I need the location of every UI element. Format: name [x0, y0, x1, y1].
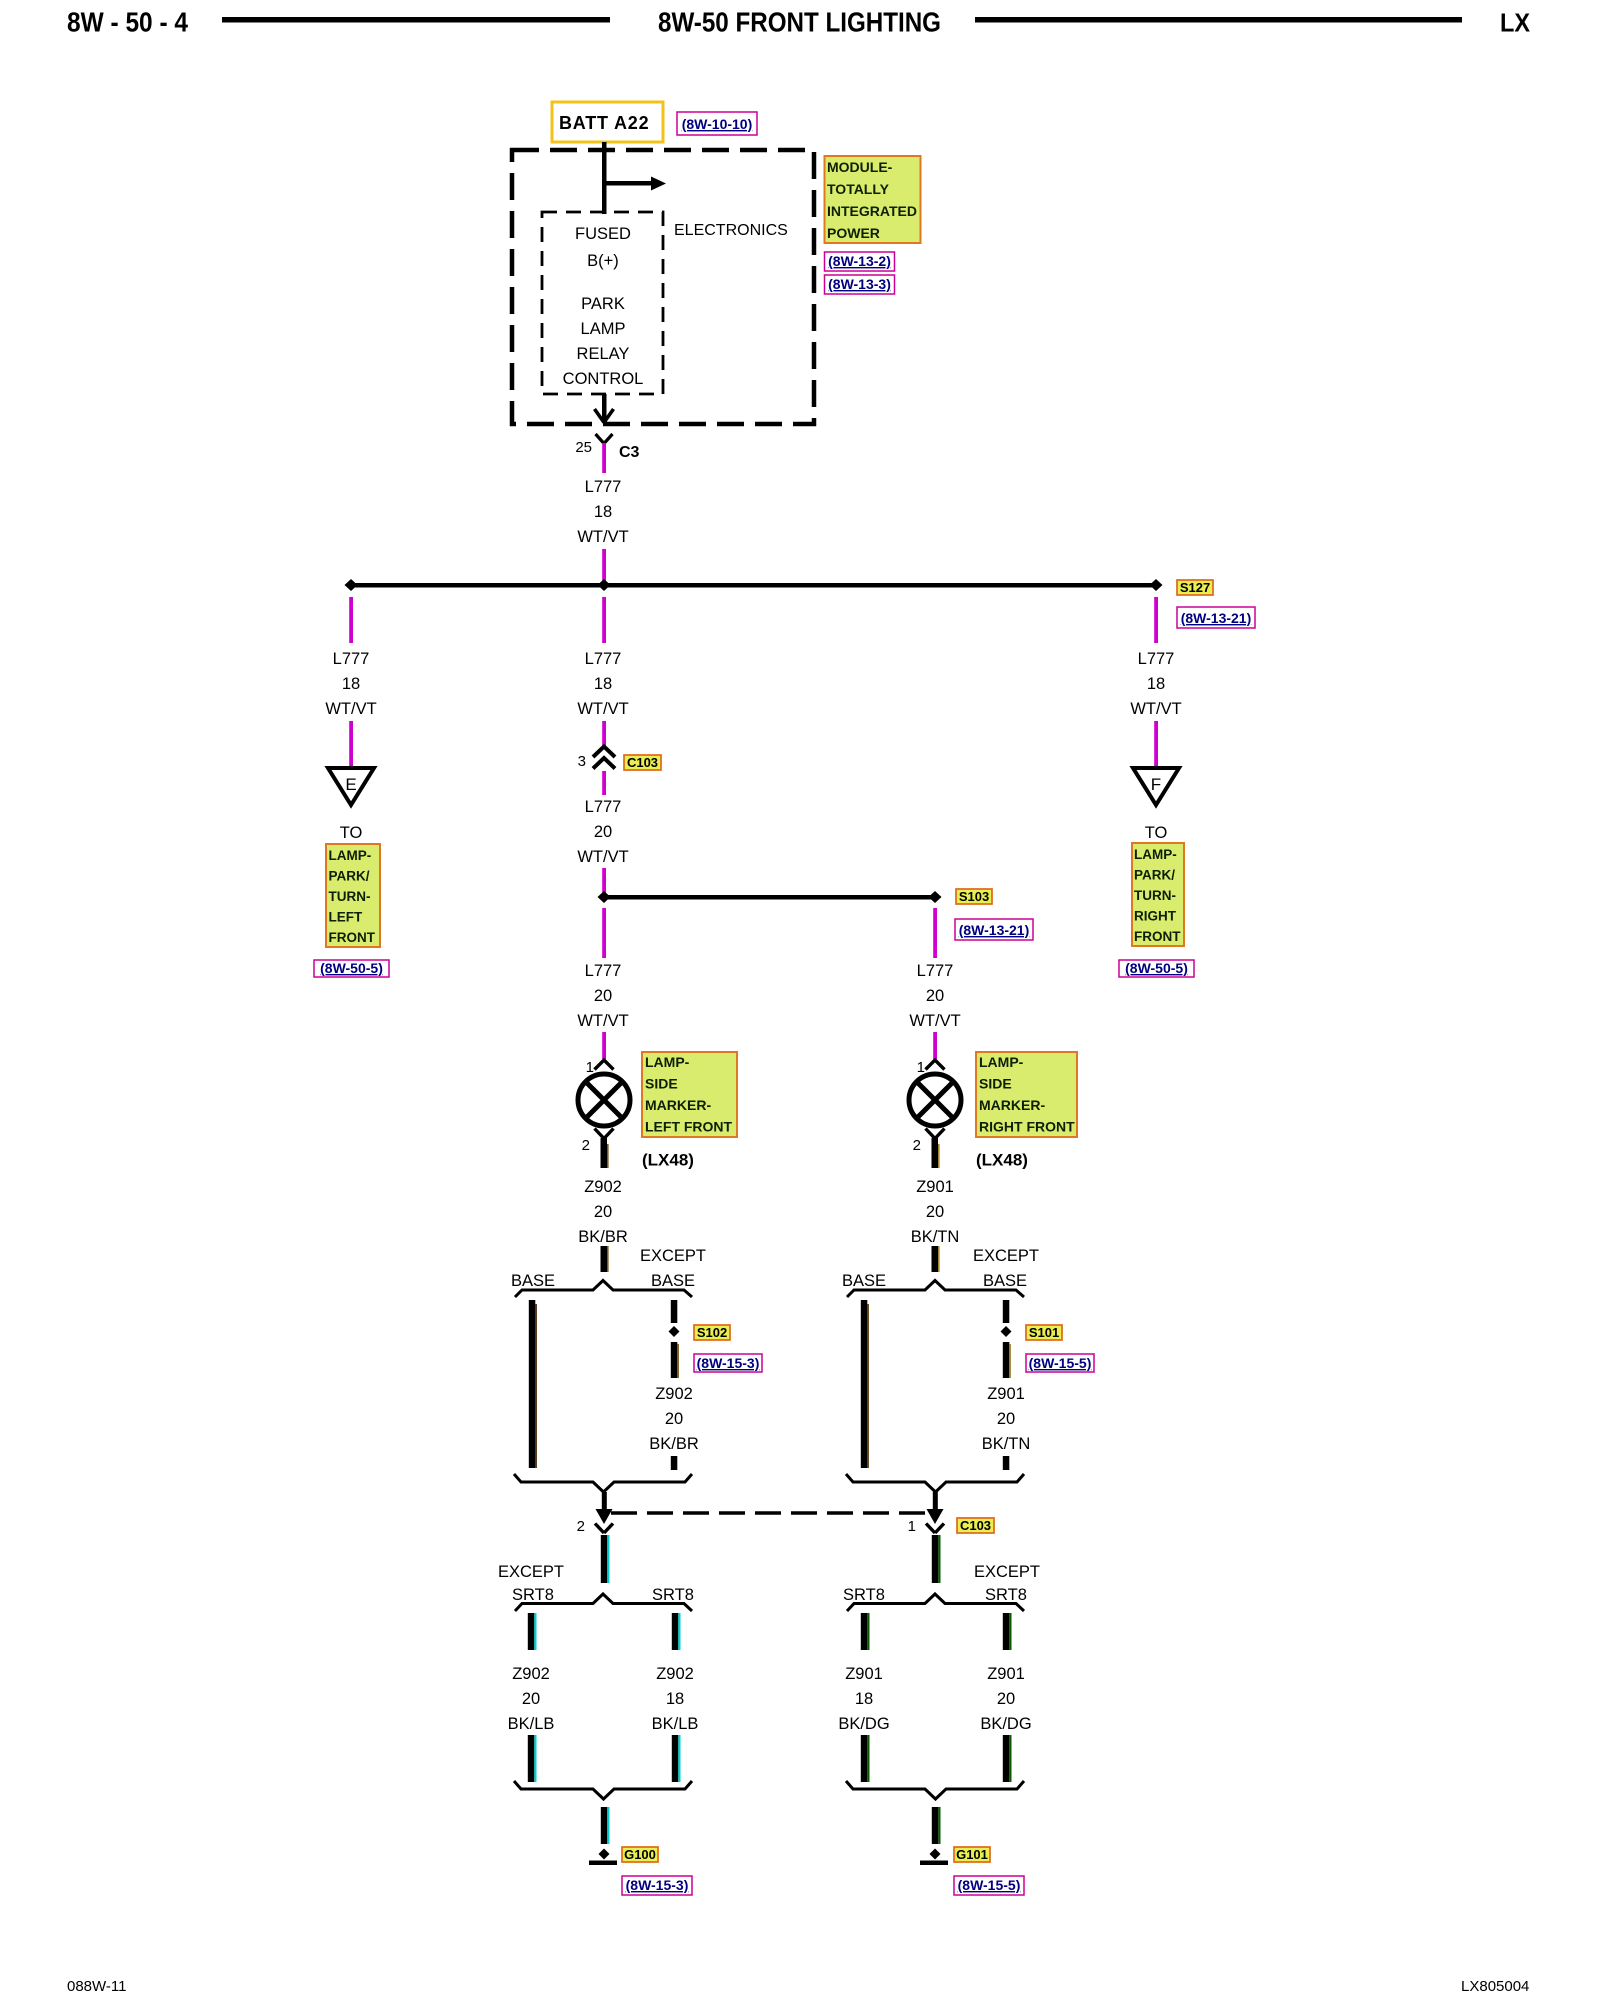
svg-text:WT/VT: WT/VT	[909, 1012, 960, 1030]
link 8W-50-5 right	[1119, 960, 1194, 977]
svg-text:EXCEPT: EXCEPT	[974, 1563, 1040, 1581]
link 8W-10-10	[677, 112, 757, 135]
svg-text:BK/TN: BK/TN	[911, 1228, 960, 1246]
wire split brace right srt8	[847, 1594, 1024, 1611]
wire Z902 20 BK/LB lower	[528, 1735, 537, 1782]
wire Z901 stub	[932, 1246, 940, 1272]
svg-text:BASE: BASE	[651, 1272, 695, 1290]
svg-text:BK/BR: BK/BR	[649, 1435, 699, 1453]
svg-text:LAMP-: LAMP-	[329, 848, 372, 863]
wire C103 dashed connector line	[611, 1511, 928, 1514]
svg-text:(8W-13-2): (8W-13-2)	[828, 253, 891, 269]
svg-text:LAMP-: LAMP-	[979, 1054, 1024, 1070]
svg-text:18: 18	[1147, 675, 1165, 693]
svg-text:088W-11: 088W-11	[67, 1978, 126, 1995]
wire merge brace right lamp	[846, 1474, 1024, 1492]
wire center below bus	[602, 597, 606, 643]
svg-text:20: 20	[997, 1410, 1015, 1428]
svg-text:BK/BR: BK/BR	[578, 1228, 628, 1246]
lamp right pin 2	[913, 1129, 945, 1169]
lamp left LAMP-SIDE MARKER-LEFT FRONT symbol	[578, 1074, 630, 1126]
svg-text:RIGHT: RIGHT	[1134, 909, 1177, 924]
svg-text:PARK/: PARK/	[1134, 868, 1175, 883]
wire	[933, 1032, 937, 1059]
svg-text:LX: LX	[1500, 8, 1531, 38]
wire Z902 18 BK/LB lower	[672, 1735, 681, 1782]
splice S102 node	[669, 1326, 680, 1337]
wire	[349, 721, 353, 766]
svg-text:BASE: BASE	[842, 1272, 886, 1290]
svg-text:BK/DG: BK/DG	[838, 1715, 889, 1733]
svg-text:EXCEPT: EXCEPT	[498, 1563, 564, 1581]
svg-text:L777: L777	[585, 650, 622, 668]
svg-text:1: 1	[586, 1059, 594, 1076]
svg-text:L777: L777	[585, 478, 622, 496]
svg-text:L777: L777	[585, 798, 622, 816]
svg-text:B(+): B(+)	[587, 252, 619, 270]
svg-text:BK/LB: BK/LB	[652, 1715, 699, 1733]
wire Z901 20 BK/DG upper	[1003, 1613, 1012, 1650]
wire below S101	[1003, 1342, 1011, 1378]
svg-text:TO: TO	[1145, 824, 1168, 842]
wire L777 18 WT/VT from C3	[602, 443, 606, 473]
svg-text:BASE: BASE	[983, 1272, 1027, 1290]
wire below S102	[671, 1342, 679, 1378]
splice S102 label	[694, 1325, 730, 1340]
svg-text:20: 20	[594, 823, 612, 841]
svg-text:SRT8: SRT8	[843, 1586, 885, 1604]
svg-text:LEFT FRONT: LEFT FRONT	[645, 1119, 733, 1135]
ground G101 label	[954, 1847, 990, 1862]
node junction diamonds	[345, 579, 358, 591]
wire batt feed vertical	[602, 142, 607, 214]
wire below C103 pin1 BK/DG	[932, 1535, 941, 1583]
wire Z902 20 BK/LB upper	[528, 1613, 537, 1650]
wire split brace left lamp	[515, 1281, 692, 1298]
svg-text:MODULE-: MODULE-	[827, 159, 893, 175]
node LAMP-SIDE MARKER-RIGHT FRONT callout	[976, 1052, 1077, 1137]
link 8W-15-3 at G100	[622, 1876, 692, 1895]
svg-text:C103: C103	[960, 1518, 991, 1533]
svg-text:LAMP: LAMP	[581, 320, 626, 338]
svg-text:8W-50 FRONT LIGHTING: 8W-50 FRONT LIGHTING	[658, 7, 941, 38]
link 8W-13-21	[1177, 607, 1255, 628]
connector C103 pin 2 arrow	[577, 1492, 613, 1535]
svg-text:SRT8: SRT8	[652, 1586, 694, 1604]
svg-text:FUSED: FUSED	[575, 225, 631, 243]
svg-text:18: 18	[855, 1690, 873, 1708]
svg-text:WT/VT: WT/VT	[1130, 700, 1181, 718]
svg-text:18: 18	[666, 1690, 684, 1708]
fuse BATT A22 box	[552, 102, 663, 142]
svg-text:18: 18	[594, 675, 612, 693]
svg-text:1: 1	[917, 1059, 925, 1076]
svg-text:EXCEPT: EXCEPT	[973, 1247, 1039, 1265]
svg-text:BK/LB: BK/LB	[508, 1715, 555, 1733]
svg-text:MARKER-: MARKER-	[645, 1097, 711, 1113]
svg-text:8W - 50 - 4: 8W - 50 - 4	[67, 7, 188, 38]
lamp left pin 1	[586, 1059, 614, 1076]
svg-text:Z902: Z902	[584, 1178, 622, 1196]
svg-text:FRONT: FRONT	[1134, 929, 1181, 944]
svg-text:TO: TO	[340, 824, 363, 842]
svg-text:LX805004: LX805004	[1461, 1978, 1529, 1995]
svg-text:Z901: Z901	[987, 1385, 1025, 1403]
link 8W-15-3 at S102	[694, 1354, 762, 1372]
svg-text:Z902: Z902	[656, 1665, 694, 1683]
svg-text:Z901: Z901	[987, 1665, 1025, 1683]
svg-text:BATT A22: BATT A22	[559, 113, 649, 133]
svg-text:F: F	[1151, 775, 1161, 794]
svg-text:CONTROL: CONTROL	[563, 370, 644, 388]
connector C103 label	[624, 755, 661, 770]
svg-text:PARK: PARK	[581, 295, 625, 313]
wire split brace left srt8	[515, 1594, 692, 1611]
wire	[602, 721, 606, 746]
svg-text:TOTALLY: TOTALLY	[827, 181, 890, 197]
svg-text:PARK/: PARK/	[329, 869, 370, 884]
lamp right LAMP-SIDE MARKER-RIGHT FRONT symbol	[909, 1074, 961, 1126]
svg-text:2: 2	[577, 1518, 585, 1535]
svg-text:FRONT: FRONT	[329, 930, 376, 945]
svg-text:20: 20	[665, 1410, 683, 1428]
header rule left	[222, 17, 610, 23]
header rule right	[975, 17, 1462, 23]
svg-text:20: 20	[594, 1203, 612, 1221]
wire Z902 18 BK/LB upper	[672, 1613, 681, 1650]
link 8W-15-5 at S101	[1026, 1354, 1094, 1372]
wire L777 20 WT/VT	[602, 771, 606, 795]
svg-text:20: 20	[926, 987, 944, 1005]
svg-text:RIGHT FRONT: RIGHT FRONT	[979, 1119, 1075, 1135]
wire Z901 18 BK/DG upper	[861, 1613, 870, 1650]
ground G101 symbol	[920, 1849, 948, 1866]
link 8W-50-5 left	[314, 960, 389, 977]
wire splice bus horizontal	[351, 583, 1156, 588]
svg-text:SRT8: SRT8	[512, 1586, 554, 1604]
svg-text:LAMP-: LAMP-	[1134, 847, 1177, 862]
svg-text:S102: S102	[697, 1325, 727, 1340]
svg-text:SIDE: SIDE	[979, 1076, 1012, 1092]
wire BASE run left	[529, 1300, 537, 1468]
wire right branch L777	[1154, 597, 1158, 643]
svg-text:C3: C3	[619, 444, 640, 461]
svg-text:(8W-15-3): (8W-15-3)	[697, 1355, 760, 1371]
ground G100 symbol	[589, 1849, 617, 1866]
connector C103 pin 1 arrow	[908, 1492, 944, 1535]
wire merge brace right srt8	[846, 1781, 1024, 1799]
svg-text:2: 2	[913, 1137, 921, 1154]
svg-text:L777: L777	[333, 650, 370, 668]
svg-text:2: 2	[582, 1137, 590, 1154]
off-page connector E	[328, 768, 374, 805]
svg-text:(LX48): (LX48)	[642, 1151, 694, 1170]
svg-text:TURN-: TURN-	[329, 889, 371, 904]
svg-text:WT/VT: WT/VT	[577, 528, 628, 546]
wire merge brace left srt8	[514, 1781, 692, 1799]
wire internal arrow branch	[604, 177, 666, 191]
svg-text:L777: L777	[585, 962, 622, 980]
wire left lamp feed	[602, 908, 606, 958]
splice S101 node	[1001, 1326, 1012, 1337]
svg-text:1: 1	[908, 1518, 916, 1535]
link 8W-13-2	[825, 252, 895, 271]
wire to G100	[601, 1807, 610, 1844]
node TO LAMP-PARK/TURN-RIGHT FRONT callout	[1132, 843, 1184, 946]
svg-text:20: 20	[594, 987, 612, 1005]
svg-text:INTEGRATED: INTEGRATED	[827, 203, 917, 219]
svg-text:SIDE: SIDE	[645, 1076, 678, 1092]
link 8W-15-5 at G101	[954, 1876, 1024, 1895]
svg-text:LEFT: LEFT	[329, 910, 363, 925]
svg-text:LAMP-: LAMP-	[645, 1054, 690, 1070]
svg-text:L777: L777	[917, 962, 954, 980]
svg-text:C103: C103	[627, 755, 658, 770]
svg-text:WT/VT: WT/VT	[325, 700, 376, 718]
wire	[602, 549, 606, 585]
node TO LAMP-PARK/TURN-LEFT FRONT callout	[326, 844, 380, 947]
svg-text:18: 18	[594, 503, 612, 521]
svg-text:L777: L777	[1138, 650, 1175, 668]
ground G100 label	[622, 1847, 658, 1862]
svg-text:TURN-: TURN-	[1134, 888, 1176, 903]
wire	[602, 868, 606, 897]
wire stub to merge right	[1003, 1456, 1010, 1470]
svg-text:BK/DG: BK/DG	[980, 1715, 1031, 1733]
svg-text:(8W-10-10): (8W-10-10)	[682, 116, 753, 132]
svg-text:BASE: BASE	[511, 1272, 555, 1290]
wire Z901 18 BK/DG lower	[861, 1735, 870, 1782]
svg-text:G100: G100	[624, 1847, 656, 1862]
svg-text:WT/VT: WT/VT	[577, 848, 628, 866]
wire split brace right lamp	[847, 1281, 1024, 1298]
wire	[1154, 721, 1158, 766]
svg-text:(8W-13-21): (8W-13-21)	[959, 922, 1030, 938]
connector C103 bottom label	[957, 1518, 994, 1533]
wire Z902 stub	[601, 1246, 609, 1272]
svg-text:Z902: Z902	[512, 1665, 550, 1683]
svg-text:G101: G101	[956, 1847, 988, 1862]
svg-text:20: 20	[926, 1203, 944, 1221]
link 8W-13-3	[825, 275, 895, 294]
wire splice S103 bus	[604, 895, 935, 900]
svg-text:EXCEPT: EXCEPT	[640, 1247, 706, 1265]
node MODULE-TOTALLY INTEGRATED POWER callout	[825, 156, 921, 243]
link 8W-13-21 at S103	[955, 919, 1033, 940]
wire stub to merge	[671, 1456, 678, 1470]
wire left branch L777	[349, 597, 353, 643]
wire to G101	[932, 1807, 941, 1844]
svg-text:ELECTRONICS: ELECTRONICS	[674, 222, 788, 239]
svg-text:(8W-15-5): (8W-15-5)	[958, 1877, 1021, 1893]
lamp left pin 2	[582, 1129, 614, 1169]
svg-text:WT/VT: WT/VT	[577, 700, 628, 718]
wire BASE run right	[861, 1300, 869, 1468]
wire EXCEPT BASE stub right	[1003, 1300, 1010, 1323]
node junction diamonds S103	[598, 891, 611, 903]
svg-text:(8W-13-21): (8W-13-21)	[1181, 610, 1252, 626]
svg-text:20: 20	[522, 1690, 540, 1708]
module internal dashed box: fused B(+) park lamp relay control	[542, 212, 663, 394]
svg-text:MARKER-: MARKER-	[979, 1097, 1045, 1113]
svg-text:S101: S101	[1029, 1325, 1059, 1340]
svg-text:20: 20	[997, 1690, 1015, 1708]
off-page connector F	[1133, 768, 1179, 805]
wire EXCEPT BASE stub	[671, 1300, 678, 1323]
svg-text:25: 25	[575, 439, 592, 456]
svg-text:(8W-50-5): (8W-50-5)	[1125, 960, 1188, 976]
connector C103 pin 3	[578, 747, 615, 771]
svg-text:(8W-15-5): (8W-15-5)	[1029, 1355, 1092, 1371]
svg-text:S103: S103	[959, 889, 989, 904]
wire below C103 pin2 BK/LB	[601, 1535, 610, 1583]
splice S103 label	[956, 889, 992, 904]
svg-text:E: E	[345, 775, 356, 794]
wire right lamp feed	[933, 908, 937, 958]
svg-text:POWER: POWER	[827, 225, 880, 241]
svg-text:Z901: Z901	[845, 1665, 883, 1683]
wire module output arrow	[595, 394, 614, 423]
svg-text:(8W-50-5): (8W-50-5)	[320, 960, 383, 976]
wire merge brace left lamp	[514, 1474, 692, 1492]
svg-text:SRT8: SRT8	[985, 1586, 1027, 1604]
wire	[602, 1032, 606, 1059]
wire Z901 20 BK/DG lower	[1003, 1735, 1012, 1782]
svg-text:18: 18	[342, 675, 360, 693]
connector C3 pin 25	[575, 434, 639, 461]
node LAMP-SIDE MARKER-LEFT FRONT callout	[642, 1052, 737, 1137]
svg-text:RELAY: RELAY	[577, 345, 630, 363]
svg-text:3: 3	[578, 753, 586, 770]
splice S101 label	[1026, 1325, 1062, 1340]
module U1 TIPM outer dashed box	[512, 150, 814, 424]
svg-text:Z902: Z902	[655, 1385, 693, 1403]
splice S127 label	[1177, 580, 1213, 595]
svg-text:(8W-15-3): (8W-15-3)	[626, 1877, 689, 1893]
svg-text:Z901: Z901	[916, 1178, 954, 1196]
svg-text:S127: S127	[1180, 580, 1210, 595]
svg-text:(8W-13-3): (8W-13-3)	[828, 276, 891, 292]
svg-text:WT/VT: WT/VT	[577, 1012, 628, 1030]
svg-text:(LX48): (LX48)	[976, 1151, 1028, 1170]
lamp right pin 1	[917, 1059, 945, 1076]
svg-text:BK/TN: BK/TN	[982, 1435, 1031, 1453]
